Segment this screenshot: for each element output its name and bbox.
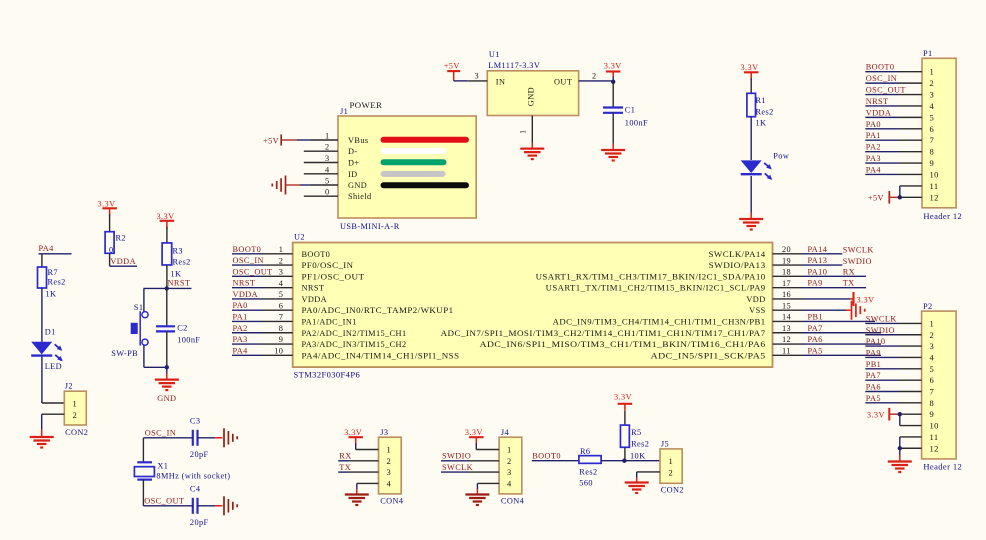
svg-text:J2: J2 (65, 382, 73, 391)
node SWDIO label at P2 pin 2 (866, 326, 895, 335)
wire 3.3V to R2 (109, 214, 111, 231)
node PA2 label at P1 pin 8 (866, 143, 881, 152)
wire P2 pin 6 (865, 379, 921, 381)
wire P2 ground stem (899, 448, 901, 461)
svg-text:4: 4 (387, 478, 392, 488)
svg-text:J1: J1 (340, 107, 348, 116)
USB colour bar grey ID (384, 171, 443, 177)
svg-text:R3: R3 (173, 247, 183, 256)
svg-text:SWCLK: SWCLK (442, 463, 473, 472)
wire J1 pin 0 shield (304, 195, 338, 197)
svg-text:19: 19 (782, 256, 791, 265)
svg-text:3: 3 (930, 341, 935, 351)
svg-text:D1: D1 (45, 328, 56, 337)
USB colour bar white D- (384, 148, 444, 154)
connector J3 CON4 (379, 428, 404, 506)
wire U2 pin 13 (773, 332, 882, 334)
svg-text:SWDIO: SWDIO (843, 257, 872, 266)
svg-text:Res2: Res2 (48, 278, 66, 287)
svg-text:2: 2 (930, 330, 935, 340)
svg-text:3: 3 (325, 154, 330, 163)
svg-text:8: 8 (930, 398, 935, 408)
svg-text:U2: U2 (294, 233, 305, 242)
svg-text:3.3V: 3.3V (344, 428, 362, 437)
resistor R5 (620, 425, 649, 460)
wire U2 pin 17 (773, 287, 867, 289)
svg-text:4: 4 (325, 165, 330, 174)
svg-text:20: 20 (782, 245, 791, 254)
connector P1 Header 12 (922, 49, 962, 221)
svg-text:3.3V: 3.3V (741, 63, 759, 72)
svg-text:ADC_IN9/TIM3_CH4/TIM14_CH1/TIM: ADC_IN9/TIM3_CH4/TIM14_CH1/TIM1_CH3N/PB1 (553, 317, 766, 326)
svg-text:5: 5 (930, 112, 935, 122)
wire P1 pin 4 (865, 105, 922, 107)
svg-text:C2: C2 (177, 324, 187, 333)
svg-text:PA0/ADC_IN0/RTC_TAMP2/WKUP1: PA0/ADC_IN0/RTC_TAMP2/WKUP1 (302, 306, 454, 315)
svg-text:Res2: Res2 (579, 468, 597, 477)
svg-text:J5: J5 (661, 440, 669, 449)
node SWCLK label pin 20 (843, 246, 874, 255)
wire P1 pin 10 (865, 173, 922, 175)
wire J1 pin 5 (300, 184, 338, 186)
svg-text:R2: R2 (116, 234, 126, 243)
svg-text:LED: LED (45, 362, 62, 371)
svg-text:VDDA: VDDA (233, 290, 259, 299)
ground right of C3 (224, 428, 237, 447)
connector J2 (64, 382, 88, 438)
svg-text:BOOT0: BOOT0 (866, 63, 895, 72)
wire P2 pin 1 (865, 322, 921, 324)
svg-text:12: 12 (782, 335, 791, 344)
node PA4 label at U2 pin 10 (233, 346, 249, 355)
regulator U1 LM1117-3.3V (487, 50, 578, 116)
svg-text:3.3V: 3.3V (867, 411, 885, 420)
svg-text:1: 1 (325, 132, 330, 141)
wire R2 to VDDA stub (110, 253, 137, 266)
wire R3 to NRST node (166, 265, 168, 288)
wire 3.3V to R1 (750, 78, 752, 93)
svg-text:1: 1 (519, 129, 528, 134)
wire P1 pin 3 (865, 94, 922, 96)
wire SWDIO to J4 pin 2 (441, 460, 499, 462)
svg-text:OSC_OUT: OSC_OUT (233, 267, 273, 276)
ground at VSS (852, 301, 865, 320)
ground under Pow LED (739, 219, 763, 230)
wire OSC_IN to C3 (143, 437, 192, 439)
svg-text:R5: R5 (631, 428, 641, 437)
ground under U1 (520, 149, 544, 160)
svg-text:10K: 10K (630, 452, 646, 461)
wire C1 to ground (612, 113, 614, 150)
svg-text:PA4: PA4 (233, 346, 249, 355)
switch S1 SW-PB (111, 303, 148, 358)
svg-text:OSC_IN: OSC_IN (233, 256, 264, 265)
wire U2 pin 14 (773, 320, 876, 322)
svg-text:USART1_RX/TIM1_CH3/TIM17_BKIN/: USART1_RX/TIM1_CH3/TIM17_BKIN/I2C1_SDA/P… (536, 272, 766, 281)
svg-text:VDD: VDD (746, 295, 765, 304)
svg-text:PA10: PA10 (808, 267, 828, 276)
USB colour bar green D+ (384, 159, 444, 165)
svg-text:CON4: CON4 (501, 497, 525, 506)
svg-text:J4: J4 (501, 428, 510, 437)
svg-text:3.3V: 3.3V (465, 428, 483, 437)
power 3.3V at J3 (344, 428, 363, 445)
ground under P2 (888, 462, 912, 473)
wire 3.3V to R3 (166, 227, 168, 243)
wire P2 pin 3 (865, 345, 921, 347)
svg-text:ADC_IN7/SPI1_MOSI/TIM3_CH2/TIM: ADC_IN7/SPI1_MOSI/TIM3_CH2/TIM14_CH1/TIM… (441, 329, 766, 338)
node BOOT0 label at R6 (532, 452, 561, 461)
svg-text:3: 3 (474, 72, 479, 81)
node PA4 label at P1 pin 10 (866, 165, 882, 174)
svg-text:3.3V: 3.3V (157, 212, 175, 221)
svg-text:GND: GND (348, 181, 367, 190)
wire P2 pin 5 (865, 368, 921, 370)
svg-text:TX: TX (843, 279, 855, 288)
ground under J4 (465, 495, 489, 506)
ground GND under C2 (155, 380, 179, 403)
node PA0 label at P1 pin 6 (866, 120, 881, 129)
capacitor C2 (156, 288, 200, 367)
wire P2 pin 12 (900, 447, 922, 449)
wire U2 pin 12 (773, 343, 882, 345)
power 3.3V at R1 (741, 63, 759, 80)
svg-text:5: 5 (325, 177, 330, 186)
svg-text:10: 10 (930, 169, 939, 179)
wire +5V to U1 pin 3 (454, 72, 488, 81)
svg-text:STM32F030F4P6: STM32F030F4P6 (294, 370, 361, 380)
svg-text:2: 2 (592, 72, 597, 81)
svg-text:X1: X1 (157, 462, 168, 471)
node NRST net label (168, 279, 191, 288)
wire P1 pin 9 (865, 162, 922, 164)
USB colour bar red VBus (384, 137, 467, 143)
power 3.3V above junction (604, 62, 622, 77)
svg-text:PA2: PA2 (233, 324, 248, 333)
node PA10 label at P2 pin 3 (866, 337, 886, 346)
svg-text:PA5: PA5 (808, 346, 823, 355)
svg-text:SWCLK: SWCLK (843, 246, 874, 255)
wire OSC_IN down to X1 (142, 438, 144, 463)
wire X1 down to OSC_OUT (142, 480, 144, 506)
svg-text:1: 1 (507, 445, 512, 455)
svg-text:18: 18 (782, 268, 791, 277)
svg-text:ADC_IN6/SPI1_MISO/TIM3_CH1/TIM: ADC_IN6/SPI1_MISO/TIM3_CH1/TIM1_BKIN/TIM… (480, 340, 766, 349)
svg-text:VSS: VSS (749, 306, 765, 315)
svg-text:Shield: Shield (348, 192, 372, 201)
resistor R3 (162, 243, 191, 279)
svg-text:2: 2 (930, 78, 935, 88)
svg-text:20pF: 20pF (190, 450, 209, 459)
power 3.3V at J4 (465, 428, 484, 445)
crystal X1 (134, 462, 230, 481)
svg-text:VBus: VBus (348, 136, 369, 145)
svg-text:2: 2 (507, 456, 512, 466)
node BOOT0 label at P1 pin 1 (866, 63, 895, 72)
wire U2 pin 1 (232, 253, 293, 255)
svg-text:1K: 1K (46, 290, 57, 299)
node PA6 label pin 12 (808, 335, 823, 344)
wire U2 pin 10 (232, 354, 293, 356)
node OSC_IN net label (145, 429, 176, 438)
svg-text:D-: D- (348, 147, 358, 156)
resistor R2 (105, 232, 126, 255)
resistor R7 (38, 267, 66, 299)
svg-text:R1: R1 (756, 96, 766, 105)
svg-text:CON2: CON2 (661, 486, 684, 495)
node PA5 label at P2 pin 8 (866, 394, 881, 403)
svg-text:7: 7 (930, 135, 935, 145)
node SWDIO label pin 19 (843, 257, 872, 266)
svg-text:CON2: CON2 (65, 428, 88, 437)
svg-text:BOOT0: BOOT0 (302, 250, 331, 259)
svg-text:Res2: Res2 (756, 108, 774, 117)
wire P1 pin 12 (900, 196, 922, 198)
node PA9 label (808, 279, 823, 288)
node OSC_OUT net label (144, 497, 184, 506)
svg-text:C1: C1 (625, 106, 635, 115)
svg-text:PA9: PA9 (808, 279, 823, 288)
pin numbers P2 (930, 318, 939, 453)
svg-text:+5V: +5V (263, 137, 279, 146)
svg-text:2: 2 (279, 256, 284, 265)
svg-text:VDDA: VDDA (866, 108, 892, 117)
svg-text:Header 12: Header 12 (923, 211, 962, 221)
wire U2 pin 16 VDD (773, 298, 854, 300)
capacitor C1 (603, 82, 648, 128)
node RX label at J3 (339, 452, 351, 461)
wire P2 pin 2 (865, 334, 921, 336)
wire U2 pin 2 (232, 264, 293, 266)
junction NRST (165, 286, 169, 290)
svg-text:PA13: PA13 (808, 256, 828, 265)
node PA4 net label (39, 244, 72, 254)
svg-text:100nF: 100nF (177, 336, 200, 345)
svg-text:2: 2 (669, 467, 674, 477)
svg-text:11: 11 (782, 347, 791, 356)
svg-text:RX: RX (843, 267, 855, 276)
svg-text:1: 1 (930, 67, 935, 77)
svg-text:PA5: PA5 (866, 394, 881, 403)
svg-text:12: 12 (930, 443, 939, 453)
svg-text:4: 4 (507, 478, 512, 488)
wire P1 pin 1 (865, 71, 922, 73)
pin names U2 right side (441, 250, 766, 361)
svg-text:ADC_IN5/SPI1_SCK/PA5: ADC_IN5/SPI1_SCK/PA5 (651, 351, 766, 360)
wire U2 pin 5 (232, 298, 293, 300)
svg-text:4: 4 (930, 101, 935, 111)
svg-text:SWCLK: SWCLK (866, 314, 897, 323)
wire U2 pin 19 (773, 264, 843, 266)
svg-text:1: 1 (669, 456, 674, 466)
wire J1 pin 2 (304, 150, 338, 152)
wire SWCLK to J4 pin 3 (441, 471, 499, 473)
wire C4 to ground (198, 505, 223, 507)
svg-text:U1: U1 (489, 50, 500, 59)
wire to GND (166, 367, 168, 379)
svg-text:3: 3 (279, 268, 284, 277)
svg-text:POWER: POWER (350, 100, 383, 110)
svg-text:D+: D+ (348, 159, 359, 168)
svg-text:4: 4 (930, 352, 935, 362)
svg-text:9: 9 (930, 409, 935, 419)
power +5V at U1 input (444, 62, 461, 81)
ground under J3 (345, 495, 369, 506)
node TX label at J3 (339, 463, 351, 472)
node PA3 label at U2 pin 9 (233, 335, 248, 344)
svg-text:OSC_IN: OSC_IN (145, 429, 176, 438)
wire S1 to ground rail (144, 345, 167, 367)
power 3.3V at P2 pin 9 (867, 408, 900, 421)
svg-text:1: 1 (930, 318, 935, 328)
svg-text:PA6: PA6 (808, 335, 823, 344)
node PA5 label pin 11 (808, 346, 823, 355)
wire 3.3V to J3 pin 1 (356, 443, 379, 449)
svg-text:PF0/OSC_IN: PF0/OSC_IN (302, 261, 354, 270)
svg-text:NRST: NRST (168, 279, 191, 288)
connector J4 CON4 (499, 428, 525, 506)
svg-text:SWDIO/PA13: SWDIO/PA13 (709, 261, 766, 270)
wire P2 pin 8 (865, 402, 921, 404)
svg-text:GND: GND (527, 87, 536, 106)
svg-text:LM1117-3.3V: LM1117-3.3V (488, 61, 540, 70)
ground right of C4 (224, 496, 237, 515)
wire 3.3V to J4 pin 1 (476, 443, 499, 449)
wire J1 pin 4 (304, 173, 338, 175)
svg-text:0: 0 (109, 246, 114, 255)
svg-text:OSC_OUT: OSC_OUT (144, 497, 184, 506)
svg-text:C3: C3 (190, 417, 200, 426)
svg-text:5: 5 (279, 290, 284, 299)
node VDDA label at U2 pin 5 (233, 290, 259, 299)
ground under C1 (601, 150, 625, 161)
svg-text:NRST: NRST (302, 284, 325, 293)
svg-text:OSC_IN: OSC_IN (866, 74, 897, 83)
svg-text:Res2: Res2 (631, 440, 649, 449)
node PA13 label (808, 256, 828, 265)
node PA3 label at P1 pin 9 (866, 154, 881, 163)
svg-text:GND: GND (157, 394, 176, 403)
wire J1 pin 3 (304, 162, 338, 164)
svg-text:8MHz (with socket): 8MHz (with socket) (156, 472, 230, 481)
node OSC_OUT label at U2 pin 3 (233, 267, 273, 276)
svg-text:PB1: PB1 (866, 360, 882, 369)
svg-text:2: 2 (73, 410, 78, 420)
svg-text:SWDIO: SWDIO (866, 326, 895, 335)
svg-text:3.3V: 3.3V (614, 393, 632, 402)
svg-text:9: 9 (930, 158, 935, 168)
svg-text:7: 7 (930, 387, 935, 397)
svg-text:100nF: 100nF (625, 119, 648, 128)
node TX label (843, 279, 855, 288)
wire 3.3V to R5 (624, 411, 626, 425)
svg-text:NRST: NRST (233, 279, 256, 288)
svg-text:1K: 1K (170, 270, 181, 279)
wire U1 GND pin 1 (519, 116, 533, 149)
svg-text:9: 9 (279, 335, 284, 344)
svg-text:PA4: PA4 (866, 165, 882, 174)
wire P1 pin 6 (865, 128, 922, 130)
svg-text:6: 6 (930, 124, 935, 134)
wire NRST horizontal (144, 287, 192, 289)
svg-text:P1: P1 (923, 49, 933, 58)
svg-text:PA1/ADC_IN1: PA1/ADC_IN1 (302, 317, 357, 326)
power 3.3V at VDD (854, 292, 875, 306)
svg-text:PA0: PA0 (866, 120, 881, 129)
svg-text:13: 13 (782, 324, 791, 333)
wire P2 pin 7 (865, 391, 921, 393)
wire U2 pin 8 (232, 332, 293, 334)
node OSC_IN label at U2 pin 2 (233, 256, 264, 265)
svg-text:PA1: PA1 (233, 312, 248, 321)
wire U2 pin 9 (232, 343, 293, 345)
svg-text:+5V: +5V (444, 62, 460, 71)
node PA0 label at U2 pin 6 (233, 301, 248, 310)
node PA1 label at P1 pin 7 (866, 131, 881, 140)
node VDDA net label (110, 257, 136, 266)
wire P1 pin 8 (865, 151, 922, 153)
svg-text:Header 12: Header 12 (923, 462, 962, 472)
wire NRST down to S1 (143, 288, 145, 311)
wire P1 pin 7 (865, 139, 922, 141)
power 3.3V at R3 (157, 212, 175, 229)
pin numbers J1 (325, 132, 330, 197)
svg-text:OUT: OUT (554, 78, 572, 87)
node PA1 label at U2 pin 7 (233, 312, 248, 321)
junction P1 +5V (898, 195, 902, 199)
svg-text:USART1_TX/TIM1_CH2/TIM15_BKIN/: USART1_TX/TIM1_CH2/TIM15_BKIN/I2C1_SCL/P… (546, 284, 766, 293)
wire P2 pin 4 (865, 356, 921, 358)
wire P2 pin 9 (900, 413, 922, 415)
svg-text:0: 0 (325, 188, 330, 197)
wire R7 to D1 (41, 288, 43, 342)
wire U2 pin 3 (232, 275, 293, 277)
svg-text:Pow: Pow (773, 152, 789, 161)
svg-text:OSC_OUT: OSC_OUT (866, 86, 906, 95)
svg-text:560: 560 (579, 479, 593, 488)
wire U2 pin 20 (773, 253, 843, 255)
svg-text:10: 10 (930, 421, 939, 431)
node OSC_IN label at P1 pin 2 (866, 74, 897, 83)
svg-text:PA0: PA0 (233, 301, 248, 310)
power +5V at J1 pin 1 (263, 134, 297, 145)
svg-text:VDDA: VDDA (302, 295, 328, 304)
svg-text:PA10: PA10 (866, 337, 886, 346)
wire U2 pin 18 (773, 275, 867, 277)
svg-text:RX: RX (339, 452, 351, 461)
wire P2 pin 11 (900, 437, 922, 448)
node NRST label at P1 pin 4 (866, 97, 889, 106)
wire C3 to ground (198, 437, 223, 439)
junction R5 R6 (622, 459, 626, 463)
resistor R6 (579, 447, 601, 488)
wire J2 pin 2 to ground (42, 414, 65, 437)
svg-text:SW-PB: SW-PB (111, 349, 138, 358)
svg-text:R6: R6 (580, 447, 590, 456)
svg-text:PA9: PA9 (866, 348, 881, 357)
wire TX to J3 pin 3 (338, 471, 378, 473)
node PA7 label at P2 pin 6 (866, 371, 881, 380)
wire Pow LED to ground (750, 176, 752, 219)
svg-text:12: 12 (930, 192, 939, 202)
svg-text:PA3/ADC_IN3/TIM15_CH2: PA3/ADC_IN3/TIM15_CH2 (302, 340, 407, 349)
node SWDIO label at J4 (442, 452, 471, 461)
svg-text:3.3V: 3.3V (98, 200, 116, 209)
svg-text:11: 11 (930, 432, 939, 442)
svg-text:6: 6 (930, 375, 935, 385)
svg-text:P2: P2 (923, 302, 933, 311)
svg-text:2: 2 (325, 143, 330, 152)
